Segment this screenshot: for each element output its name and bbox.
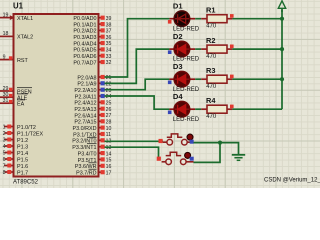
svg-text:P2.2/A10: P2.2/A10 [74,88,96,94]
svg-text:R4: R4 [206,96,216,105]
wire D1 cathode to R1 [195,18,201,20]
svg-text:31: 31 [3,98,9,104]
svg-text:2: 2 [3,131,6,137]
pin 17 (P3.7/RD) [76,169,111,176]
wire P2.2 (pin 23) to D3 row [105,79,170,90]
svg-text:3: 3 [3,138,6,144]
junction bus row 1 [280,17,284,21]
junction bus row 3 [280,77,284,81]
svg-text:XTAL2: XTAL2 [17,35,33,41]
XTAL1 input arrow [10,15,15,20]
svg-text:22: 22 [106,82,112,88]
svg-text:34: 34 [106,48,112,54]
svg-text:9: 9 [3,54,6,60]
svg-text:33: 33 [106,54,112,60]
pin 25 (P2.4/A12) [74,100,111,106]
node D1 anode state square [168,20,172,24]
svg-text:P0.2/AD2: P0.2/AD2 [73,29,96,35]
svg-text:P1.2: P1.2 [17,138,28,144]
pin 34 (P0.5/AD5) [73,47,111,53]
junction buttons/ground [218,141,222,145]
push button S2 [162,152,194,164]
LED D1 [169,2,199,33]
svg-text:P1.1/T2EX: P1.1/T2EX [17,131,43,137]
svg-text:P2.0/A8: P2.0/A8 [77,75,96,81]
node button1 left state square [159,139,163,143]
svg-text:R2: R2 [206,36,215,45]
wire R1 to power bus [232,18,282,20]
LED D3 [169,62,199,93]
pin 22 (P2.1/A9) [77,81,111,87]
node button2 right state square [190,157,194,161]
resistor R3 470 [201,66,232,90]
power symbol (VCC arrow) [278,1,285,12]
LED D4 [169,92,199,123]
node button2 left state square [157,157,161,161]
svg-text:P0.6/AD6: P0.6/AD6 [73,54,96,60]
svg-text:P2.1/A9: P2.1/A9 [77,82,96,88]
svg-text:LED-RED: LED-RED [173,117,200,123]
pin 8 (P1.7) [3,170,28,176]
resistor R4 470 [201,96,232,120]
svg-text:38: 38 [106,22,112,28]
pin 2 (P1.1/T2EX) [3,131,44,137]
pin 28 (P2.7/A15) [74,119,111,125]
svg-text:P3.4/T0: P3.4/T0 [78,151,97,157]
svg-text:6: 6 [3,157,6,163]
pin 16 (P3.6/WR) [75,163,112,170]
svg-text:P3.0/RXD: P3.0/RXD [73,126,97,132]
resistor R1 470 [201,6,232,30]
svg-text:P1.4: P1.4 [17,151,28,157]
svg-text:P3.7/RD: P3.7/RD [76,171,96,177]
svg-text:19: 19 [3,12,9,18]
pin 12 (P3.2/INT0) [72,137,111,144]
node R3 right state square [230,75,234,79]
svg-text:32: 32 [106,60,112,66]
pin 7 (P1.6) [3,164,28,170]
svg-text:26: 26 [106,107,112,113]
svg-text:14: 14 [106,151,112,157]
pin 26 (P2.5/A13) [74,107,111,113]
wire P3.3 (pin 13) to button2 [105,147,159,159]
svg-text:AT89C52: AT89C52 [13,180,39,186]
wire button2 to junction riser [194,143,221,163]
svg-text:P0.5/AD5: P0.5/AD5 [73,48,96,54]
svg-text:21: 21 [106,75,112,81]
resistor R2 470 [201,36,232,60]
pin 9 (RST) wire stub [0,54,28,64]
svg-text:35: 35 [106,41,112,47]
svg-text:36: 36 [106,35,112,41]
op chip U1 AT89C52 body [14,14,99,177]
svg-text:39: 39 [106,16,112,22]
pin 4 (P1.3) [3,144,28,150]
svg-text:RST: RST [17,58,28,64]
svg-text:24: 24 [106,94,112,100]
pin 31 (EA) wire stub [0,98,25,108]
ground symbol [232,155,245,161]
svg-text:P2.3/A11: P2.3/A11 [75,94,97,100]
svg-text:D3: D3 [173,62,183,71]
pin 6 (P1.5) [3,157,28,163]
wire P2.1 (pin 22) to D2 row [105,49,170,83]
svg-text:D2: D2 [173,32,183,41]
svg-text:27: 27 [106,113,112,119]
node D4 anode state square [168,111,172,115]
node button1 right state square [190,140,194,144]
svg-text:EA: EA [17,102,25,108]
wire R2 to power bus [232,48,282,50]
node R2 right state square [230,45,234,49]
svg-text:P2.6/A14: P2.6/A14 [74,113,96,119]
pin 29 (PSEN) wire stub [0,86,32,96]
svg-text:P1.5: P1.5 [17,157,28,163]
svg-text:P0.0/AD0: P0.0/AD0 [73,16,96,22]
svg-text:P2.5/A13: P2.5/A13 [74,107,96,113]
wire junction to ground [220,143,239,155]
svg-text:16: 16 [106,164,112,170]
wire P3.2 (pin 12) to button1 [105,140,164,142]
svg-text:P0.7/AD7: P0.7/AD7 [73,60,96,66]
svg-text:P2.7/A15: P2.7/A15 [74,120,96,126]
svg-text:1: 1 [3,125,6,131]
pin 3 (P1.2) [3,138,28,144]
pin 27 (P2.6/A14) [74,113,111,119]
pin 11 (P3.1/TXD) [73,132,111,138]
node D3 anode state square [168,81,172,85]
node D2 anode state square [168,50,172,54]
pin 32 (P0.7/AD7) [73,60,111,66]
svg-text:15: 15 [106,158,112,164]
pin 1 (P1.0/T2) [3,125,36,131]
pin 13 (P3.3/INT1) [72,144,111,151]
wire R3 to power bus [232,78,282,80]
svg-text:37: 37 [106,29,112,35]
pin 37 (P0.2/AD2) [73,28,111,34]
wire R4 to power bus [232,108,282,110]
svg-text:D1: D1 [173,2,183,11]
pin 15 (P3.5/T1) [78,157,112,164]
pin 14 (P3.4/T0) [78,151,112,157]
svg-text:8: 8 [3,170,6,176]
svg-text:U1: U1 [13,2,24,11]
wire power bus vertical [281,10,283,109]
svg-text:R3: R3 [206,66,215,75]
pin 35 (P0.4/AD4) [73,41,111,47]
pin 10 (P3.0/RXD) [73,126,112,132]
svg-text:28: 28 [106,120,112,126]
svg-text:P3.3/INT1: P3.3/INT1 [72,145,96,151]
wire D4 cathode to R4 [195,108,201,110]
pin 24 (P2.3/A11) [75,94,112,100]
svg-text:P1.7: P1.7 [17,170,28,176]
wire P2.3 (pin 24) to D4 row [105,96,170,109]
junction bus row 2 [280,47,284,51]
svg-text:4: 4 [3,144,6,150]
pin 18 (XTAL2) wire stub [0,31,33,41]
wire P2.0 (pin 21) to D1 row [105,19,170,77]
svg-text:470: 470 [206,84,217,90]
svg-text:470: 470 [206,24,217,30]
svg-text:PSEN: PSEN [17,89,32,95]
pin 36 (P0.3/AD3) [73,35,111,41]
svg-text:P2.4/A12: P2.4/A12 [74,101,96,107]
svg-text:18: 18 [3,31,9,37]
wire D2 cathode to R2 [195,48,201,50]
svg-text:D4: D4 [173,92,183,101]
push button S1 [163,134,194,145]
svg-text:11: 11 [106,132,111,138]
svg-text:R1: R1 [206,6,215,15]
svg-text:7: 7 [3,164,6,170]
svg-text:470: 470 [206,114,217,120]
pin 30 (ALE) wire stub [0,92,28,102]
node R1 right state square [230,14,234,18]
pin 33 (P0.6/AD6) [73,54,111,60]
wire button1 to junction [194,142,221,144]
svg-text:23: 23 [106,88,112,94]
pin 39 (P0.0/AD0) [73,16,111,22]
svg-text:10: 10 [106,126,112,132]
svg-text:CSDN @Verium_12_: CSDN @Verium_12_ [264,178,320,184]
wire D3 cathode to R3 [195,78,201,80]
pin 21 (P2.0/A8) [77,75,111,81]
pin 19 (XTAL1) wire stub [0,12,33,22]
node R4 right state square [230,105,234,109]
svg-text:P0.3/AD3: P0.3/AD3 [73,35,96,41]
svg-text:29: 29 [3,86,9,92]
svg-text:P0.1/AD1: P0.1/AD1 [73,22,96,28]
svg-text:XTAL1: XTAL1 [17,16,33,22]
svg-text:17: 17 [106,170,112,176]
pin 38 (P0.1/AD1) [73,22,111,28]
svg-text:P1.0/T2: P1.0/T2 [17,125,36,131]
LED D2 [169,32,199,63]
svg-text:P1.6: P1.6 [17,164,28,170]
svg-text:P1.3: P1.3 [17,144,28,150]
svg-text:470: 470 [206,54,217,60]
svg-text:25: 25 [106,101,112,107]
pin 23 (P2.2/A10) [74,88,111,94]
svg-text:P0.4/AD4: P0.4/AD4 [73,41,96,47]
pin 5 (P1.4) [3,151,28,157]
svg-text:5: 5 [3,151,6,157]
